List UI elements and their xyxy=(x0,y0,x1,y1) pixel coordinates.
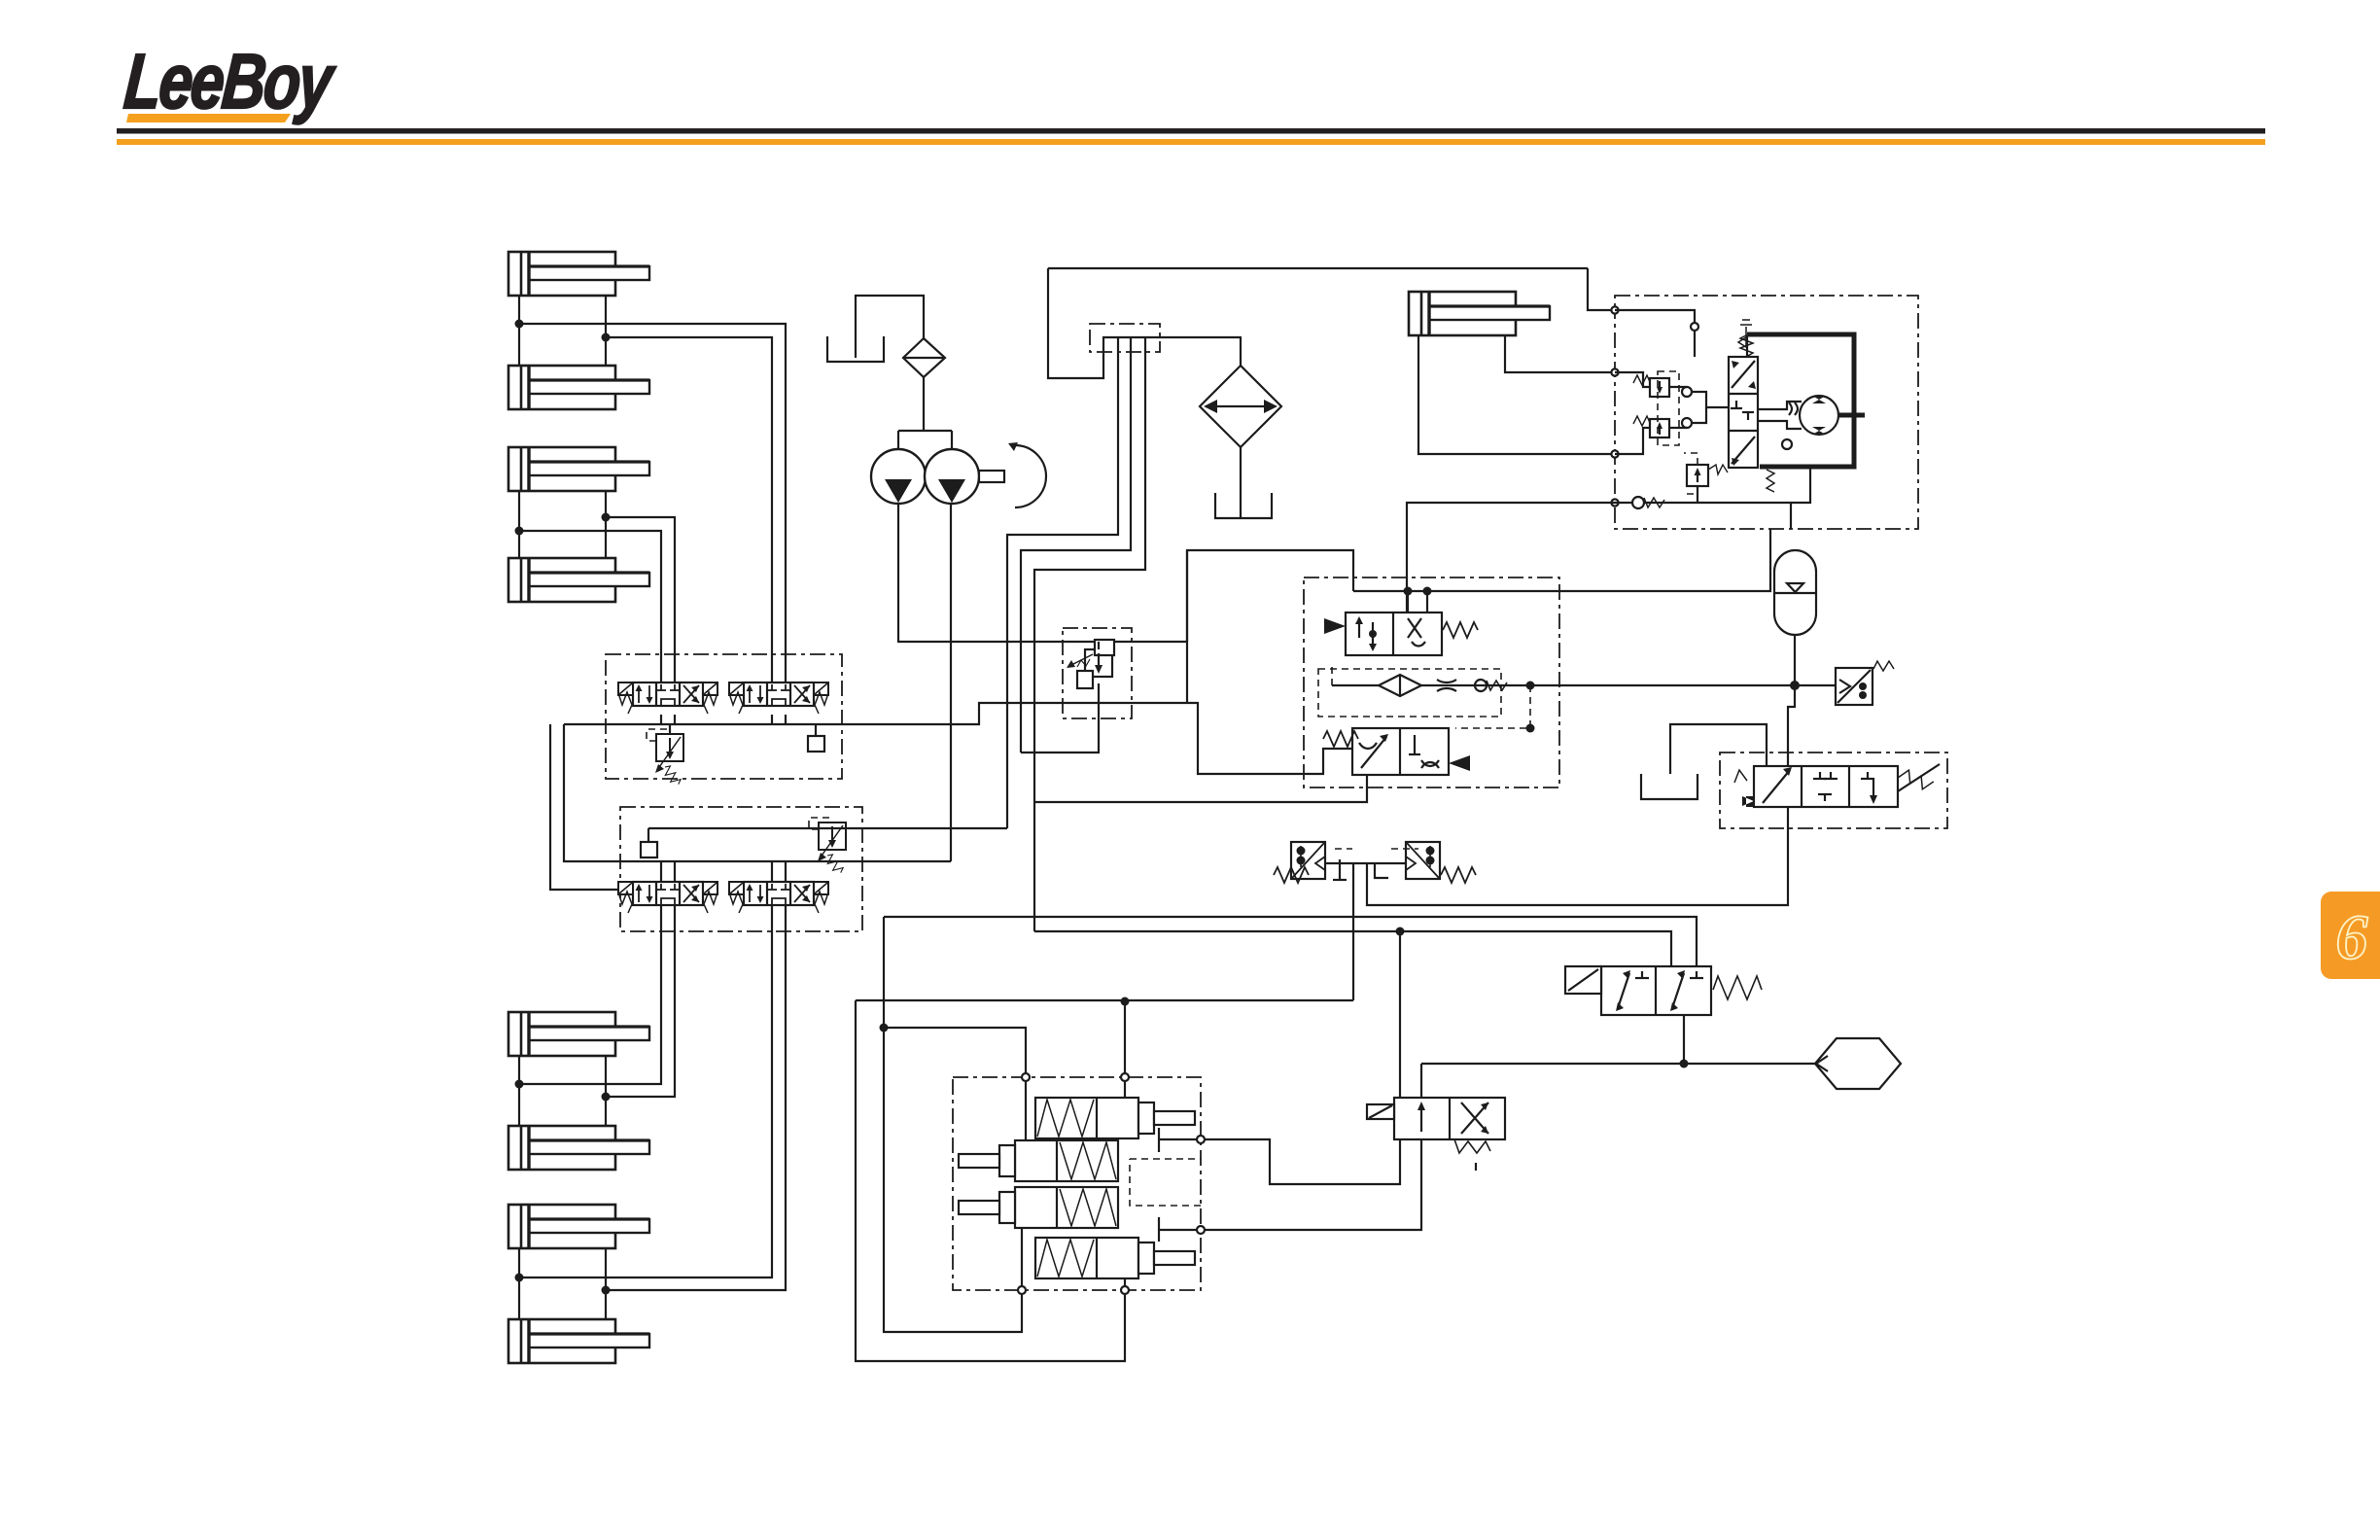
rod stubs to right ports xyxy=(1158,1128,1160,1152)
wire A1-A2 left xyxy=(518,296,520,366)
bottom bus xyxy=(1615,467,1810,503)
hydraulic motor M1 xyxy=(1800,396,1838,435)
tank T1 xyxy=(827,336,884,362)
top bus xyxy=(1048,267,1588,269)
manifold drop 2 xyxy=(1021,337,1131,752)
HX bottom pipe xyxy=(1240,447,1242,518)
reducing valve xyxy=(1085,649,1112,677)
tank T3 xyxy=(1641,774,1697,799)
valve L1 xyxy=(618,682,717,714)
relief B xyxy=(1650,419,1669,437)
cylinder C2 xyxy=(508,1126,649,1170)
cylinder A2 xyxy=(508,366,649,409)
brake cylinder B1 xyxy=(1035,1098,1195,1138)
lower flow valve xyxy=(1323,728,1470,775)
engine hexagon xyxy=(1815,1038,1901,1089)
top bus left leg xyxy=(1048,268,1242,378)
vertical from fan box to y931 xyxy=(1790,503,1792,529)
orifice plug box2 xyxy=(641,842,657,857)
bottom path B xyxy=(1205,1139,1421,1230)
drop to y931 wire xyxy=(1367,807,1788,905)
drain T marks xyxy=(1339,859,1341,880)
box2 internal bus xyxy=(620,860,951,862)
cylinder A1 xyxy=(508,252,649,296)
top feed 2 xyxy=(1420,1064,1422,1098)
valve body xyxy=(1367,1098,1505,1171)
check balls xyxy=(1682,387,1692,397)
jog down to release valve xyxy=(1788,685,1795,766)
inner dashed bracket xyxy=(1130,1159,1201,1206)
valve L3 xyxy=(618,882,717,913)
bottom relief xyxy=(1687,465,1708,486)
wire C3-C4 right xyxy=(605,1248,607,1319)
spring below valve xyxy=(1767,470,1774,492)
accumulator xyxy=(1774,550,1816,685)
cyl D head wire xyxy=(1418,335,1615,454)
valve L3 bottom stubs xyxy=(660,905,662,913)
inner dashed box xyxy=(1318,669,1501,717)
wire A3-A4 right xyxy=(605,491,607,558)
bridge lines xyxy=(1669,386,1687,388)
box1 internal bus xyxy=(564,703,1187,724)
cyl D rod wire xyxy=(1505,335,1615,372)
filter F1 xyxy=(903,338,945,377)
heat exchanger HX xyxy=(1200,366,1281,447)
node A pair1 left xyxy=(515,320,524,329)
top feed from bus2 xyxy=(1399,931,1401,1098)
svg-text:LeeBoy: LeeBoy xyxy=(122,39,339,125)
brake cylinder B2 xyxy=(959,1140,1118,1181)
manifold box 1 border xyxy=(606,654,842,779)
lower valve left port xyxy=(1187,703,1352,774)
pump P2 outlet xyxy=(950,504,952,861)
wires into reliefs xyxy=(1615,372,1650,387)
center connector xyxy=(1325,862,1406,864)
upper flow valve xyxy=(1324,612,1478,655)
reducing valve drain xyxy=(1021,683,1099,752)
drop to brake box top right xyxy=(1124,1001,1126,1077)
relief A xyxy=(1650,378,1669,397)
internal wires xyxy=(1025,1077,1027,1140)
node A pair2 left xyxy=(515,527,524,536)
header rule orange xyxy=(117,139,2265,145)
bus P (y943) xyxy=(884,917,1697,966)
inlet wire xyxy=(1615,310,1695,357)
cylinder C4 xyxy=(508,1319,649,1363)
valve L1 bottom stubs xyxy=(660,715,662,724)
shaft rotation arrow xyxy=(1015,445,1046,507)
wire C pair1 right to valve L3 xyxy=(606,913,675,1097)
valve L2 bottom stubs xyxy=(771,715,773,724)
wire C pair1 left to valve L3 xyxy=(519,913,661,1084)
check + spring on bottom bus xyxy=(1632,497,1644,508)
brake cylinder B4 xyxy=(1035,1238,1195,1278)
bus y1030 xyxy=(856,999,1353,1001)
port circles xyxy=(1022,1073,1030,1081)
wire A1-A2 right xyxy=(605,296,607,366)
reducing valve feed xyxy=(1098,642,1100,649)
motor feed lines xyxy=(1758,402,1802,409)
check + orifice row xyxy=(1379,675,1507,696)
node C pair2 left xyxy=(515,1274,524,1282)
wire to engine xyxy=(1684,1063,1815,1065)
pump P1 outlet xyxy=(898,504,1187,642)
cylinder C1 xyxy=(508,1012,649,1056)
valve L4 bottom stubs xyxy=(771,905,773,913)
LeeBoy logo xyxy=(122,39,339,125)
dash marks above xyxy=(1335,848,1418,850)
valve L2 xyxy=(729,682,828,714)
wire pair1 right to valve L2 port xyxy=(606,337,772,682)
orifice plug box1 xyxy=(808,736,824,752)
pump P1 xyxy=(871,449,926,504)
valve L3 top stubs xyxy=(660,861,662,882)
fan box border xyxy=(1615,296,1918,529)
valve L4 top stubs xyxy=(771,861,773,882)
node bus2 xyxy=(1396,927,1405,936)
tank T2 xyxy=(1215,493,1272,518)
port markers xyxy=(1611,306,1618,313)
wire C pair2 right to valve L4 xyxy=(606,913,786,1290)
brake cylinder B3 xyxy=(959,1187,1118,1228)
HX top pipe xyxy=(1240,337,1242,366)
drop from fan bus to flow valves xyxy=(1407,503,1615,612)
wire C1-C2 right xyxy=(605,1056,607,1126)
left drop lines to box2 xyxy=(550,724,618,890)
wire y608 xyxy=(1353,529,1770,591)
3/2 valve xyxy=(1565,966,1762,1015)
valve bottom to engine node xyxy=(1683,1015,1685,1064)
lower valve bottom port xyxy=(1034,775,1367,802)
thick power loop xyxy=(1747,334,1854,467)
cylinder A3 xyxy=(508,447,649,491)
wire A3-A4 left xyxy=(518,491,520,558)
pump P2 xyxy=(925,449,979,504)
release box border xyxy=(1720,752,1947,828)
check ball right xyxy=(1782,439,1792,449)
manifold drop 3 xyxy=(1034,337,1145,931)
fan control valve vertical xyxy=(1729,320,1758,468)
valve L4 xyxy=(729,882,828,913)
chapter tab 6 xyxy=(2321,892,2380,979)
filter to pumps xyxy=(923,377,925,431)
wire pair2 right to valve L1 port xyxy=(606,517,675,682)
suction pipe xyxy=(856,296,924,358)
main pilot line y705 xyxy=(1421,684,1795,686)
bottom path A xyxy=(1205,1139,1400,1184)
svg-text:6: 6 xyxy=(2336,902,2368,973)
riser x909 xyxy=(883,917,885,1028)
left outer loop xyxy=(856,1000,1125,1361)
reducing box border xyxy=(1063,628,1132,718)
wire C1-C2 left xyxy=(518,1056,520,1126)
node A pair2 right xyxy=(602,513,611,522)
wire y852 from plug to right xyxy=(648,827,1007,829)
node C pair2 right xyxy=(602,1286,611,1295)
logo orange underline xyxy=(126,114,291,122)
node A pair1 right xyxy=(602,333,611,342)
brake box border xyxy=(953,1077,1201,1290)
relief valve R2 xyxy=(819,822,846,850)
wire pair2 left to valve L1 port xyxy=(519,531,661,682)
node C pair1 right xyxy=(602,1093,611,1102)
upper valve feeds xyxy=(1407,591,1409,612)
release valve body xyxy=(1734,764,1940,807)
inner loop from riser xyxy=(884,1028,1022,1332)
header rule black xyxy=(117,128,2265,134)
pump shaft xyxy=(979,471,1004,482)
right cartridge xyxy=(1406,842,1440,879)
flow box border xyxy=(1304,577,1559,787)
wire pair1 left to valve L2 port xyxy=(519,324,786,682)
relief valve R1 xyxy=(656,734,683,761)
drop to y1030 bus xyxy=(1352,863,1354,1000)
manifold drop 1 xyxy=(1007,337,1118,828)
wire C3-C4 left xyxy=(518,1248,520,1319)
manifold bracket xyxy=(1090,324,1160,352)
tank pipe xyxy=(1670,724,1767,774)
bus T (y958) xyxy=(1034,931,1671,966)
spring above valve xyxy=(1740,335,1753,357)
node C pair1 left xyxy=(515,1080,524,1089)
cylinder C3 xyxy=(508,1205,649,1248)
dashed pilot box xyxy=(1658,371,1679,445)
left cartridge xyxy=(1291,842,1325,879)
manifold box 2 border xyxy=(620,807,862,931)
top bus right leg xyxy=(1588,268,1615,310)
pressure switch xyxy=(1795,661,1894,705)
wire C pair2 left to valve L4 xyxy=(519,913,772,1277)
cylinder A4 xyxy=(508,558,649,602)
wire to parking valve xyxy=(1421,1063,1684,1065)
